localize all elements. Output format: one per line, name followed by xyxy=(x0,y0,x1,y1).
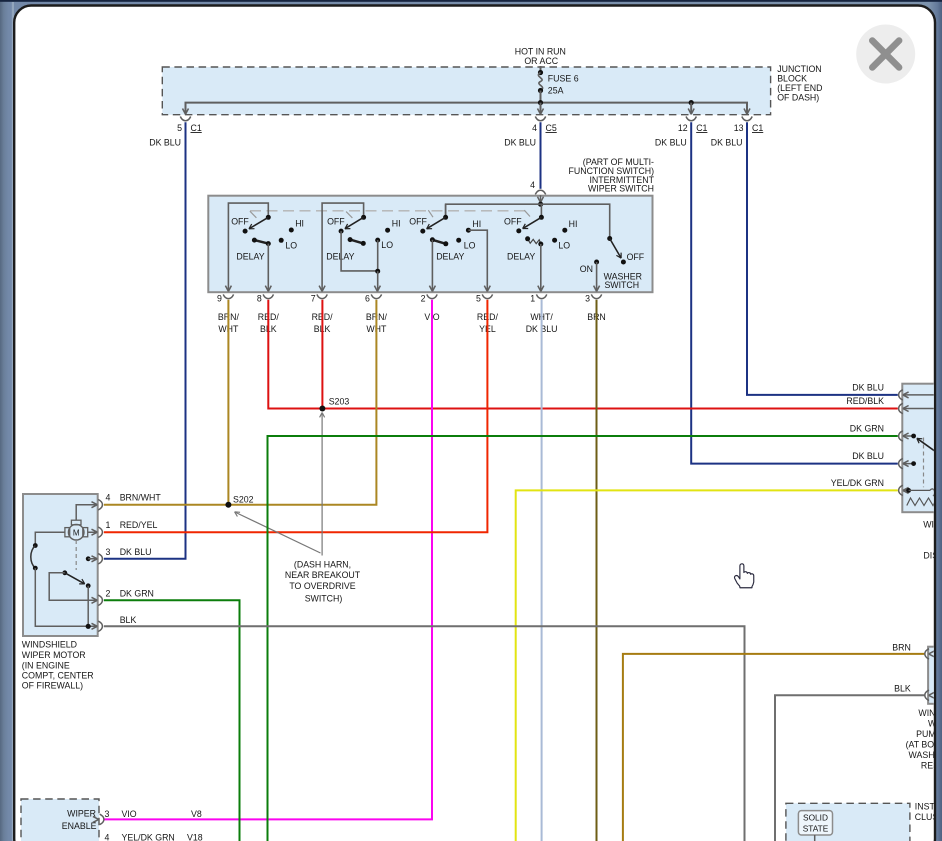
junction block bus wire xyxy=(186,103,748,114)
wire RED/BLK pin7 to S203 xyxy=(321,300,323,409)
wire VIO pin2 to wiper enable xyxy=(104,300,432,820)
relay pin DK GRN connector xyxy=(850,424,909,442)
svg-text:12: 12 xyxy=(678,123,688,133)
svg-text:S202: S202 xyxy=(233,495,254,505)
washer switch lever xyxy=(610,239,621,259)
relay pin RED/BLK connector xyxy=(846,396,908,414)
switch pin 8 connector xyxy=(257,293,279,334)
wire DK BLU pin12 C1 to wiper relay xyxy=(691,122,898,463)
svg-text:NEAR BREAKOUT: NEAR BREAKOUT xyxy=(285,570,361,580)
G1 OFF lever xyxy=(249,217,268,229)
svg-text:BRN: BRN xyxy=(892,642,911,652)
motor mech dashed link xyxy=(75,540,77,570)
wire BLK motor ground xyxy=(104,626,745,841)
svg-text:DK GRN: DK GRN xyxy=(850,424,884,434)
svg-text:OFF: OFF xyxy=(409,216,427,226)
motor M symbol xyxy=(68,524,84,540)
wiper enable box (dashed) xyxy=(21,799,99,841)
svg-text:HOT IN RUN: HOT IN RUN xyxy=(515,47,566,57)
motor feed to pin 4 xyxy=(76,502,97,521)
wiper relay box K1 xyxy=(902,384,938,513)
relay pin DK BLU connector xyxy=(852,382,908,400)
label INSTRUMENT CLUSTER xyxy=(915,802,942,823)
G4 LO contact xyxy=(552,238,570,251)
intermittent wiper switch box U1 xyxy=(208,196,652,293)
relay DK BLU node xyxy=(904,461,916,466)
svg-text:RED/BLK: RED/BLK xyxy=(846,396,884,406)
label JUNCTION BLOCK (LEFT END OF DASH) xyxy=(777,64,822,103)
wire BRN/WHT pin9 to S202 xyxy=(227,300,229,505)
G3 OFF lever xyxy=(427,217,446,229)
svg-text:WIPER: WIPER xyxy=(67,809,96,819)
junction block pin 5 connector C1 xyxy=(149,109,202,148)
G1 DELAY wiper xyxy=(252,238,271,247)
motor pin 2 connector xyxy=(98,589,154,606)
svg-text:ON: ON xyxy=(580,264,593,274)
wire DK GRN motor pin2 down xyxy=(104,600,240,841)
label WASHER SWITCH xyxy=(604,271,642,290)
wire DK BLU pin4 C5 to wiper switch xyxy=(540,122,542,189)
relay label DISABLE xyxy=(923,550,942,560)
G3 common stem xyxy=(445,204,447,215)
junction block (dashed box) xyxy=(162,67,770,115)
svg-text:BLOCK: BLOCK xyxy=(777,74,807,84)
G2 LO drop xyxy=(377,240,379,271)
svg-text:SOLID: SOLID xyxy=(803,813,828,823)
close button xyxy=(856,25,915,84)
svg-text:OF FIREWALL): OF FIREWALL) xyxy=(22,681,83,691)
G4 common node xyxy=(539,215,544,220)
junction block pin 12 connector C1 xyxy=(655,109,708,148)
G1 drop to pin 8 xyxy=(267,244,269,292)
callout leader to S202 xyxy=(235,512,321,553)
washer switch lever pivot xyxy=(607,236,612,241)
G1 OFF contact xyxy=(243,229,248,234)
switch pin 2 connector xyxy=(421,293,440,322)
bus node at pin 12 xyxy=(689,100,694,105)
G2 OFF lever xyxy=(345,217,364,228)
svg-text:DK BLU: DK BLU xyxy=(655,138,687,148)
motor ground path xyxy=(35,568,97,629)
relay pin YEL/DK GRN connector xyxy=(831,478,909,496)
svg-text:DK BLU: DK BLU xyxy=(711,138,743,148)
G1 LO contact xyxy=(279,238,298,251)
fuse F6 bottom node xyxy=(538,88,543,93)
svg-text:OF DASH): OF DASH) xyxy=(777,93,819,103)
switch input arrow to bus xyxy=(538,195,544,207)
svg-text:2: 2 xyxy=(421,293,426,303)
solid state drop wire xyxy=(814,835,816,841)
label WINDSHIELD WIPER MOTOR xyxy=(22,640,94,691)
switch pin 3 connector xyxy=(585,293,606,322)
relay contact line 2 xyxy=(904,408,941,410)
svg-text:DK BLU: DK BLU xyxy=(149,138,181,148)
motor park path to pin 2 xyxy=(49,573,97,604)
G3 drop to pin 2 xyxy=(431,240,433,292)
G2 junction node xyxy=(375,269,380,274)
svg-text:FUSE 6: FUSE 6 xyxy=(548,74,579,84)
G2 label OFF xyxy=(327,216,345,226)
wiper switch input pin 4 xyxy=(530,180,546,194)
wiper enable pin 4 labels xyxy=(105,833,203,841)
motor left brush wire xyxy=(35,532,65,545)
relay pin DK BLU connector xyxy=(852,451,908,469)
G1 label OFF xyxy=(231,216,249,226)
svg-text:SWITCH): SWITCH) xyxy=(305,594,343,604)
switch pin 3 arrow xyxy=(594,286,600,292)
motor park lever pivot xyxy=(62,570,67,575)
svg-text:OR ACC: OR ACC xyxy=(524,56,558,66)
motor top brush xyxy=(71,520,81,525)
solid state box xyxy=(798,811,832,835)
switch pin 9 connector xyxy=(217,293,239,334)
svg-text:C5: C5 xyxy=(546,123,557,133)
G4 HI contact xyxy=(562,219,577,233)
svg-text:LO: LO xyxy=(558,241,570,251)
svg-text:DK BLU: DK BLU xyxy=(120,547,152,557)
G3 label DELAY xyxy=(436,251,464,261)
switch pin 2 arrow xyxy=(429,286,435,292)
svg-text:BRN/WHT: BRN/WHT xyxy=(120,493,162,503)
linkage tick G2 xyxy=(346,212,352,218)
svg-text:VIO: VIO xyxy=(122,809,137,819)
svg-text:YEL/DK GRN: YEL/DK GRN xyxy=(122,833,175,841)
wire fuse to bus xyxy=(540,91,542,103)
svg-text:13: 13 xyxy=(734,123,744,133)
G4 OFF lever xyxy=(523,217,542,228)
G2 label DELAY xyxy=(326,251,354,261)
label FUSE 6 25A xyxy=(548,74,579,96)
svg-text:8: 8 xyxy=(257,293,262,303)
svg-text:BLK: BLK xyxy=(894,683,911,693)
svg-text:LO: LO xyxy=(464,241,476,251)
motor breaker bottom node xyxy=(33,566,38,571)
switch internal bus xyxy=(446,204,610,238)
svg-text:HI: HI xyxy=(295,218,304,228)
svg-text:1: 1 xyxy=(106,520,111,530)
label WIPER ENABLE xyxy=(62,809,97,832)
switch pin 7 connector xyxy=(311,293,333,334)
splice S203 xyxy=(319,397,349,412)
svg-text:DELAY: DELAY xyxy=(507,251,535,261)
motor ground pin connector xyxy=(98,615,136,632)
svg-text:1: 1 xyxy=(530,293,535,303)
pump pin BRN connector xyxy=(892,642,934,659)
svg-text:STATE: STATE xyxy=(803,824,829,834)
relay coil resistor xyxy=(904,488,937,506)
wire hot feed into fuse xyxy=(540,66,542,73)
svg-text:4: 4 xyxy=(530,180,535,190)
linkage tick G3 xyxy=(428,210,433,217)
label WINDSHIELD WASHER PUMP xyxy=(906,708,942,771)
svg-text:6: 6 xyxy=(365,293,370,303)
wiper motor box M1 xyxy=(23,494,98,636)
label HOT IN RUN OR ACC xyxy=(515,47,566,67)
svg-text:(DASH HARN,: (DASH HARN, xyxy=(294,560,351,570)
switch pin 1 connector xyxy=(526,293,558,334)
callout text DASH HARN NEAR BREAKOUT TO OVERDRIVE SWITCH xyxy=(285,560,361,604)
G2 common node xyxy=(361,215,366,220)
svg-text:V18: V18 xyxy=(187,833,203,841)
svg-text:LO: LO xyxy=(285,240,297,250)
svg-text:DK BLU: DK BLU xyxy=(504,138,536,148)
G4 common stem xyxy=(540,204,542,217)
svg-text:TO OVERDRIVE: TO OVERDRIVE xyxy=(289,581,355,591)
svg-text:OFF: OFF xyxy=(231,216,249,226)
fuse F6 top node xyxy=(538,70,543,75)
G1 HI contact xyxy=(289,218,304,232)
G2 DELAY wiper xyxy=(348,237,366,246)
relay lever xyxy=(917,438,935,451)
G3 HI contact xyxy=(466,219,481,233)
svg-text:COMPT, CENTER: COMPT, CENTER xyxy=(22,671,94,681)
motor pin 4 connector xyxy=(98,493,161,510)
wire DK BLU pin13 C1 to wiper relay xyxy=(747,122,898,395)
motor park lever xyxy=(65,573,85,584)
fuse F6 element xyxy=(538,73,542,91)
svg-text:(IN ENGINE: (IN ENGINE xyxy=(22,661,70,671)
wire BRN washer pump xyxy=(623,654,925,841)
svg-text:DK GRN: DK GRN xyxy=(120,589,154,599)
wire DK GRN to wiper relay xyxy=(268,436,898,841)
wire BRN/WHT pin6 to wiper motor pin4 xyxy=(104,300,377,505)
wire DK BLU pin5 C1 to wiper motor pin3 xyxy=(104,122,186,559)
wire BLK washer pump xyxy=(775,695,924,841)
svg-text:ENABLE: ENABLE xyxy=(62,821,97,831)
svg-text:JUNCTION: JUNCTION xyxy=(777,64,821,74)
mechanical linkage dashed line xyxy=(250,210,527,212)
svg-text:5: 5 xyxy=(177,123,182,133)
svg-text:4: 4 xyxy=(106,493,111,503)
svg-text:4: 4 xyxy=(532,123,537,133)
G2 feed path xyxy=(322,203,364,291)
svg-text:LO: LO xyxy=(381,240,393,250)
G3 DELAY wiper xyxy=(430,237,448,246)
svg-text:4: 4 xyxy=(105,833,110,841)
svg-text:C1: C1 xyxy=(191,123,202,133)
switch pin 8 arrow xyxy=(265,286,271,292)
motor breaker arc xyxy=(31,546,36,569)
G3 LO contact xyxy=(456,238,475,251)
G3 label OFF xyxy=(409,216,427,226)
G3 common node xyxy=(443,215,448,220)
G2 drop to pin 6 xyxy=(377,271,379,291)
svg-text:OFF: OFF xyxy=(504,216,522,226)
linkage tick G1 xyxy=(250,211,257,218)
instrument cluster box (dashed) xyxy=(786,803,910,841)
linkage tick G4 xyxy=(524,210,530,216)
wire WHT/DK BLU pin1 down xyxy=(541,300,543,841)
svg-text:DELAY: DELAY xyxy=(236,251,264,261)
svg-text:OFF: OFF xyxy=(627,252,645,262)
motor brush to pin 1 xyxy=(88,529,98,535)
svg-text:DELAY: DELAY xyxy=(436,251,464,261)
svg-text:SWITCH: SWITCH xyxy=(604,280,639,290)
svg-text:WIPER MOTOR: WIPER MOTOR xyxy=(22,650,86,660)
svg-text:5: 5 xyxy=(476,293,481,303)
svg-text:M: M xyxy=(73,528,80,537)
motor pin 1 connector xyxy=(98,520,157,537)
G4 label DELAY xyxy=(507,251,535,261)
motor park contact xyxy=(86,583,91,588)
switch pin 9 arrow xyxy=(225,286,231,292)
svg-text:DK BLU: DK BLU xyxy=(852,382,884,392)
G1 label DELAY xyxy=(236,251,264,261)
motor right brush xyxy=(83,528,88,537)
switch pin 7 arrow xyxy=(319,286,325,292)
washer ON contact xyxy=(580,260,599,274)
relay label WIPER xyxy=(923,520,942,530)
svg-text:DK BLU: DK BLU xyxy=(852,451,884,461)
svg-text:(LEFT END: (LEFT END xyxy=(777,83,822,93)
svg-text:BLK: BLK xyxy=(120,615,137,625)
washer OFF contact xyxy=(621,252,645,265)
motor ground junction node xyxy=(86,624,91,629)
relay contact line 1 xyxy=(904,394,941,396)
G2 LO contact xyxy=(375,238,393,250)
svg-text:YEL/DK GRN: YEL/DK GRN xyxy=(831,478,884,488)
svg-text:WIPER SWITCH: WIPER SWITCH xyxy=(588,184,654,194)
washer pump box xyxy=(928,647,940,704)
svg-text:HI: HI xyxy=(392,219,401,229)
bus node at fuse xyxy=(538,100,543,105)
svg-text:2: 2 xyxy=(106,589,111,599)
motor breaker top node xyxy=(33,543,38,548)
wire YEL/DK GRN to wiper relay xyxy=(516,490,898,841)
relay DK GRN node xyxy=(904,434,916,439)
wire RED/BLK pin8 to wiper relay xyxy=(268,300,898,409)
svg-text:25A: 25A xyxy=(548,86,564,96)
wire BRN pin3 down xyxy=(596,300,598,841)
svg-text:S203: S203 xyxy=(329,397,350,407)
callout leader to S203 xyxy=(320,413,325,556)
relay dashed link xyxy=(923,438,925,488)
wire stem pin 4 drop xyxy=(540,103,542,114)
svg-text:3: 3 xyxy=(105,809,110,819)
washer drop to pin 3 xyxy=(596,262,598,291)
junction block pin 4 connector C5 xyxy=(504,109,557,148)
motor park node pin3 xyxy=(86,556,98,562)
G2 OFF contact xyxy=(339,229,344,234)
G4 OFF contact xyxy=(516,228,521,233)
svg-text:WINDSHIELD: WINDSHIELD xyxy=(22,640,77,650)
switch pin 6 connector xyxy=(365,293,387,334)
motor left brush xyxy=(65,528,70,537)
svg-text:V8: V8 xyxy=(191,809,202,819)
svg-text:9: 9 xyxy=(217,293,222,303)
svg-text:C1: C1 xyxy=(752,123,763,133)
G3 OFF contact xyxy=(420,229,425,234)
G4 label OFF xyxy=(504,216,522,226)
svg-text:RED/YEL: RED/YEL xyxy=(120,520,158,530)
svg-text:HI: HI xyxy=(472,219,481,229)
switch pin 6 arrow xyxy=(374,286,380,292)
G1 feed path xyxy=(228,203,268,291)
motor park contact drop xyxy=(87,586,89,627)
G4 delay resistor xyxy=(525,236,543,246)
G3 HI path to pin 5 xyxy=(468,230,487,291)
label (PART OF MULTI-FUNCTION SWITCH) INTERMITTENT WIPER SWITCH xyxy=(568,157,654,194)
left edge highlight xyxy=(12,2,14,841)
wiper enable pin 3 connector xyxy=(93,809,202,825)
wire RED/YEL pin5 to wiper motor pin1 xyxy=(104,300,488,532)
svg-text:3: 3 xyxy=(106,547,111,557)
G4 drop to pin 1 xyxy=(540,244,542,291)
mouse cursor (hand) xyxy=(734,564,753,588)
svg-text:7: 7 xyxy=(311,293,316,303)
motor pin 3 connector xyxy=(98,547,151,564)
G1 common node xyxy=(266,215,271,220)
pump pin BLK connector xyxy=(894,683,934,700)
switch pin 1 arrow xyxy=(538,286,544,292)
svg-text:C1: C1 xyxy=(696,123,707,133)
splice S202 xyxy=(225,495,253,508)
svg-text:OFF: OFF xyxy=(327,216,345,226)
wire stem pin 12 drop xyxy=(690,103,692,114)
G2 HI contact xyxy=(385,219,401,233)
svg-text:3: 3 xyxy=(585,293,590,303)
G2 OFF drop path xyxy=(341,231,378,271)
svg-text:HI: HI xyxy=(569,219,578,229)
switch pin 5 connector xyxy=(476,293,498,334)
junction block pin 13 connector C1 xyxy=(711,109,764,148)
switch pin 5 arrow xyxy=(484,286,490,292)
